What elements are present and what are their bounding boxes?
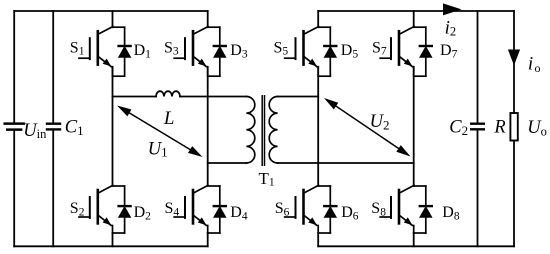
arrow i2 output current — [443, 3, 462, 15]
arrow io load current — [508, 50, 520, 66]
svg-text:C2: C2 — [449, 118, 468, 138]
svg-text:Uin: Uin — [23, 121, 47, 141]
svg-text:io: io — [528, 53, 541, 74]
transformer T1 secondary winding — [269, 97, 277, 164]
svg-text:S5: S5 — [274, 39, 289, 57]
wire leg2 collector lead — [207, 11, 209, 27]
wire primary top link with inductor taps leg1 — [113, 96, 157, 98]
wire secondary bottom link winding to leg4 — [278, 162, 414, 164]
svg-text:Uo: Uo — [527, 118, 547, 138]
wire leg4 emitter to bottom rail — [413, 233, 415, 246]
svg-text:U2: U2 — [370, 112, 390, 132]
wire leg3 midsection — [317, 67, 319, 186]
diode D8 — [414, 186, 432, 233]
transistor S3 — [174, 27, 208, 77]
wire inductor to primary winding — [180, 96, 246, 98]
wire leg4 midsection — [413, 67, 415, 186]
transistor S1 — [79, 27, 113, 77]
svg-text:S8: S8 — [371, 200, 386, 218]
wire left rail upper (U_in plus lead) — [13, 11, 15, 122]
wire C2 bottom lead — [477, 131, 479, 247]
transistor S8 — [380, 185, 414, 233]
transistor S6 — [285, 185, 319, 233]
wire left rail lower (U_in minus lead) — [13, 131, 15, 247]
wire leg4 collector lead — [413, 11, 415, 27]
wire leg2 emitter to bottom rail — [207, 233, 209, 246]
wire bottom rail left bridge — [14, 245, 208, 247]
capacitor C2 — [471, 124, 484, 130]
svg-text:R: R — [493, 117, 505, 137]
svg-text:S4: S4 — [165, 200, 180, 218]
transistor S7 — [380, 27, 414, 77]
wire leg3 emitter to bottom rail — [317, 233, 319, 246]
wire C1 bottom lead — [52, 131, 54, 247]
svg-text:S6: S6 — [275, 200, 290, 218]
transformer T1 primary winding — [246, 97, 254, 164]
diode D1 — [113, 27, 131, 76]
wire leg1 collector lead — [112, 11, 114, 27]
svg-text:D7: D7 — [440, 42, 458, 60]
wire C1 top lead — [52, 11, 54, 122]
wire primary bottom link leg2 to winding — [208, 162, 247, 164]
svg-text:S3: S3 — [164, 39, 179, 57]
wire secondary top link winding to leg3 — [278, 96, 319, 98]
transistor S4 — [174, 185, 208, 233]
svg-text:S7: S7 — [372, 39, 387, 57]
wire top rail left bridge — [14, 10, 208, 12]
capacitor C1 — [47, 124, 60, 130]
diode D5 — [318, 27, 336, 76]
diode D7 — [414, 27, 432, 76]
svg-text:C1: C1 — [65, 118, 84, 138]
wire leg2 midsection — [207, 67, 209, 186]
arrow U2 voltage double arrow — [324, 98, 411, 157]
arrow U1 voltage double arrow — [117, 106, 203, 158]
transistor S5 — [285, 27, 319, 77]
svg-text:D6: D6 — [341, 204, 359, 222]
svg-text:T1: T1 — [259, 169, 275, 189]
wire right rail upper (load top lead) — [513, 11, 515, 113]
resistor R — [510, 113, 517, 141]
svg-text:D4: D4 — [230, 204, 248, 222]
svg-text:S1: S1 — [70, 39, 85, 57]
wire leg3 collector lead — [317, 11, 319, 27]
svg-text:i2: i2 — [445, 18, 457, 39]
svg-text:D1: D1 — [134, 42, 152, 60]
svg-text:L: L — [163, 108, 175, 129]
transformer T1 core — [262, 96, 264, 165]
svg-text:S2: S2 — [70, 200, 85, 218]
diode D2 — [113, 186, 131, 233]
diode D4 — [208, 186, 226, 233]
wire C2 top lead — [477, 11, 479, 122]
wire top rail right bridge — [318, 10, 514, 12]
svg-text:D8: D8 — [442, 204, 460, 222]
diode D3 — [208, 27, 226, 76]
wire leg1 midsection — [112, 67, 114, 186]
wire right rail lower (load bottom lead) — [513, 141, 515, 247]
source U_in — [5, 124, 24, 130]
svg-text:D2: D2 — [134, 204, 152, 222]
svg-text:D3: D3 — [230, 42, 248, 60]
transistor S2 — [79, 185, 113, 233]
wire leg1 emitter to bottom rail — [112, 233, 114, 246]
inductor L — [156, 91, 180, 96]
svg-text:U1: U1 — [148, 139, 168, 159]
svg-text:D5: D5 — [341, 42, 359, 60]
wire bottom rail right bridge — [318, 245, 514, 247]
diode D6 — [318, 186, 336, 233]
